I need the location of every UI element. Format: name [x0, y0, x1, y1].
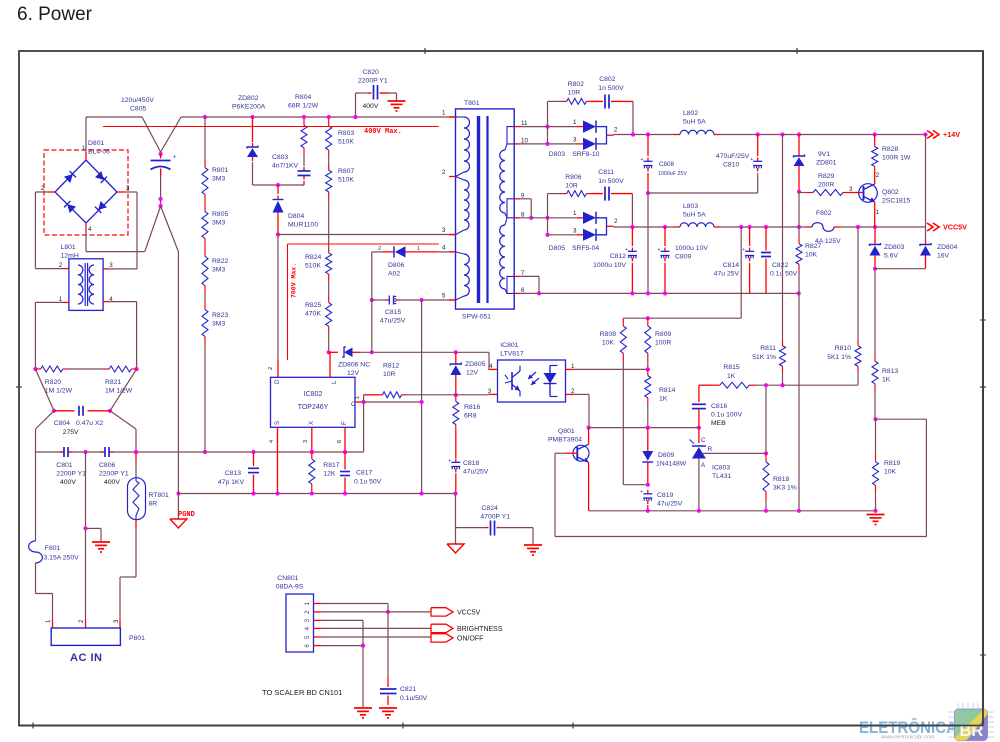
svg-text:10R: 10R	[568, 90, 581, 97]
svg-text:5.6V: 5.6V	[884, 253, 898, 260]
svg-text:R829: R829	[818, 173, 834, 180]
svg-text:R813: R813	[882, 368, 898, 375]
svg-text:700V Max.: 700V Max.	[291, 263, 298, 298]
svg-text:C822: C822	[772, 262, 788, 269]
svg-text:R811: R811	[760, 345, 776, 352]
svg-text:1: 1	[304, 602, 311, 606]
svg-text:R821: R821	[105, 379, 121, 386]
svg-text:3M3: 3M3	[212, 321, 225, 328]
svg-text:D805: D805	[549, 245, 565, 252]
svg-text:P6KE200A: P6KE200A	[232, 104, 266, 111]
svg-text:400V: 400V	[363, 103, 379, 110]
svg-text:R810: R810	[835, 345, 851, 352]
svg-text:R802: R802	[568, 81, 584, 88]
svg-text:5: 5	[304, 635, 311, 639]
svg-text:470uF/25V: 470uF/25V	[716, 153, 750, 160]
svg-text:+: +	[750, 157, 753, 163]
svg-text:C810: C810	[723, 162, 739, 169]
svg-text:R: R	[708, 446, 713, 453]
svg-text:+: +	[173, 155, 177, 161]
svg-text:510K: 510K	[305, 263, 321, 270]
svg-text:3: 3	[303, 440, 309, 443]
svg-text:1: 1	[876, 209, 880, 216]
svg-text:1n 500V: 1n 500V	[598, 178, 624, 185]
svg-text:A: A	[701, 462, 706, 469]
svg-text:6R8: 6R8	[464, 413, 477, 420]
svg-text:+: +	[641, 157, 644, 163]
svg-text:2: 2	[442, 169, 446, 176]
svg-text:3M3: 3M3	[212, 176, 225, 183]
svg-text:MUR1100: MUR1100	[288, 222, 318, 229]
svg-text:D: D	[274, 379, 281, 384]
svg-text:CN801: CN801	[277, 575, 298, 582]
svg-text:R828: R828	[882, 146, 898, 153]
svg-text:+: +	[448, 458, 451, 464]
svg-text:SPW-051: SPW-051	[462, 314, 491, 321]
svg-text:1000u 10V: 1000u 10V	[675, 245, 708, 252]
svg-text:R815: R815	[723, 364, 739, 371]
svg-text:3M3: 3M3	[212, 267, 225, 274]
svg-text:400V: 400V	[104, 479, 120, 486]
svg-text:400V Max.: 400V Max.	[364, 128, 402, 136]
svg-text:1: 1	[417, 246, 420, 252]
svg-text:IC802: IC802	[304, 391, 323, 398]
svg-text:D806: D806	[388, 262, 404, 269]
svg-text:120u/450V: 120u/450V	[121, 97, 154, 104]
svg-text:1M 1/2W: 1M 1/2W	[45, 388, 73, 395]
svg-text:C808: C808	[659, 161, 675, 168]
svg-text:R822: R822	[212, 258, 228, 265]
svg-text:PMBT3904: PMBT3904	[548, 437, 582, 444]
svg-text:VCC5V: VCC5V	[943, 223, 967, 232]
svg-text:12V: 12V	[347, 370, 360, 377]
svg-text:200R: 200R	[818, 182, 834, 189]
svg-text:12mH: 12mH	[61, 253, 79, 260]
svg-text:TO SCALER BD CN101: TO SCALER BD CN101	[262, 688, 342, 697]
svg-text:Q802: Q802	[882, 189, 899, 196]
svg-text:R808: R808	[600, 331, 616, 338]
svg-text:LTV817: LTV817	[500, 351, 524, 358]
svg-text:2SC1815: 2SC1815	[882, 198, 911, 205]
svg-text:L802: L802	[683, 110, 698, 117]
svg-text:1K: 1K	[727, 373, 736, 380]
svg-text:R817: R817	[323, 462, 339, 469]
svg-text:ZD805: ZD805	[465, 361, 486, 368]
svg-text:R818: R818	[773, 476, 789, 483]
svg-text:R803: R803	[338, 130, 354, 137]
svg-text:51K 1%: 51K 1%	[752, 354, 776, 361]
svg-text:2200P Y1: 2200P Y1	[358, 78, 388, 85]
svg-text:C821: C821	[400, 686, 416, 693]
svg-text:0.1u/50V: 0.1u/50V	[400, 695, 428, 702]
svg-text:1N4148W: 1N4148W	[656, 461, 687, 468]
svg-text:R816: R816	[464, 404, 480, 411]
svg-text:10R: 10R	[565, 183, 578, 190]
svg-text:C806: C806	[99, 462, 115, 469]
svg-text:C802: C802	[599, 76, 615, 83]
svg-text:3M3: 3M3	[212, 220, 225, 227]
svg-text:3: 3	[126, 185, 130, 192]
svg-text:R823: R823	[212, 312, 228, 319]
svg-text:C824: C824	[482, 505, 498, 512]
svg-text:3: 3	[573, 228, 577, 235]
svg-text:1K: 1K	[882, 377, 891, 384]
svg-text:3: 3	[849, 186, 853, 193]
svg-text:4: 4	[489, 363, 493, 370]
svg-text:68R 1/2W: 68R 1/2W	[288, 103, 319, 110]
svg-text:R806: R806	[565, 174, 581, 181]
svg-text:3.15A 250V: 3.15A 250V	[44, 555, 80, 562]
svg-text:9V1: 9V1	[818, 151, 830, 158]
svg-text:1000u 10V: 1000u 10V	[593, 262, 626, 269]
svg-text:ZD801: ZD801	[816, 160, 837, 167]
svg-text:R804: R804	[295, 94, 311, 101]
svg-text:ON/OFF: ON/OFF	[457, 636, 483, 643]
svg-text:TOP246Y: TOP246Y	[298, 404, 329, 411]
svg-text:10K: 10K	[805, 252, 818, 259]
svg-text:C814: C814	[723, 262, 739, 269]
svg-text:2: 2	[614, 127, 618, 134]
svg-text:3K3 1%: 3K3 1%	[773, 485, 797, 492]
svg-text:+: +	[640, 490, 643, 496]
svg-text:2: 2	[378, 246, 381, 252]
svg-text:R820: R820	[45, 379, 61, 386]
svg-text:X: X	[308, 421, 315, 425]
svg-text:D809: D809	[658, 452, 674, 459]
svg-text:MEB: MEB	[711, 420, 726, 427]
svg-text:ZD803: ZD803	[884, 244, 905, 251]
svg-text:2: 2	[41, 185, 45, 192]
svg-text:4n7/1KV: 4n7/1KV	[272, 163, 299, 170]
svg-text:SRF8-10: SRF8-10	[572, 151, 599, 158]
svg-text:C812: C812	[610, 253, 626, 260]
svg-text:C820: C820	[363, 69, 379, 76]
svg-text:R812: R812	[383, 363, 399, 370]
svg-text:2200P Y1: 2200P Y1	[56, 471, 86, 478]
svg-text:R819: R819	[884, 460, 900, 467]
svg-text:+: +	[742, 247, 745, 253]
svg-text:8R: 8R	[149, 501, 158, 508]
svg-text:10K: 10K	[884, 469, 897, 476]
svg-text:C801: C801	[56, 462, 72, 469]
svg-text:510K: 510K	[338, 177, 354, 184]
svg-text:5uH 5A: 5uH 5A	[683, 212, 706, 219]
svg-text:6. Power: 6. Power	[17, 4, 93, 25]
svg-text:1: 1	[442, 110, 446, 117]
svg-text:R801: R801	[212, 167, 228, 174]
svg-text:12K: 12K	[323, 471, 336, 478]
svg-text:400V: 400V	[60, 479, 76, 486]
svg-text:RT801: RT801	[149, 492, 169, 499]
svg-text:100R: 100R	[655, 340, 671, 347]
svg-text:S: S	[274, 421, 281, 425]
svg-text:C817: C817	[356, 470, 372, 477]
svg-text:R827: R827	[805, 243, 821, 250]
svg-text:47p 1KV: 47p 1KV	[218, 479, 245, 486]
svg-text:3: 3	[109, 262, 113, 269]
svg-text:470K: 470K	[305, 311, 321, 318]
svg-text:510K: 510K	[338, 139, 354, 146]
svg-text:5uH 5A: 5uH 5A	[683, 119, 706, 126]
svg-text:L803: L803	[683, 203, 698, 210]
svg-text:C804: C804	[54, 420, 70, 427]
svg-text:4: 4	[442, 244, 446, 251]
svg-text:2200P Y1: 2200P Y1	[99, 471, 129, 478]
svg-text:C816: C816	[711, 403, 727, 410]
svg-text:ZD802: ZD802	[238, 95, 259, 102]
svg-text:1n 500V: 1n 500V	[598, 85, 624, 92]
svg-text:1: 1	[573, 210, 577, 217]
svg-text:C803: C803	[272, 154, 288, 161]
svg-text:C818: C818	[463, 460, 479, 467]
svg-text:3: 3	[304, 618, 311, 622]
svg-text:275V: 275V	[63, 429, 79, 436]
svg-text:F801: F801	[45, 545, 61, 552]
svg-text:1: 1	[355, 396, 361, 399]
svg-text:R807: R807	[338, 168, 354, 175]
svg-text:D803: D803	[549, 151, 565, 158]
svg-text:IC801: IC801	[500, 342, 518, 349]
svg-text:2: 2	[614, 218, 618, 225]
svg-text:47u/25V: 47u/25V	[657, 501, 683, 508]
svg-text:10R: 10R	[383, 371, 396, 378]
svg-text:TL431: TL431	[712, 473, 731, 480]
svg-text:12V: 12V	[466, 370, 479, 377]
svg-text:2: 2	[876, 172, 880, 179]
svg-text:R805: R805	[212, 211, 228, 218]
svg-text:5K1 1%: 5K1 1%	[827, 354, 851, 361]
svg-text:6: 6	[337, 440, 343, 443]
svg-text:www.eletronicabr.com: www.eletronicabr.com	[880, 735, 935, 741]
svg-text:R825: R825	[305, 302, 321, 309]
svg-text:L: L	[331, 380, 338, 384]
svg-text:1K: 1K	[659, 396, 668, 403]
svg-text:1000uF 25V: 1000uF 25V	[658, 171, 687, 177]
svg-text:16V: 16V	[937, 253, 950, 260]
svg-text:D801: D801	[88, 140, 104, 147]
svg-text:L801: L801	[61, 244, 76, 251]
svg-text:D804: D804	[288, 213, 304, 220]
svg-text:3: 3	[573, 137, 577, 144]
svg-text:10K: 10K	[602, 340, 615, 347]
svg-text:C819: C819	[657, 492, 673, 499]
svg-text:R824: R824	[305, 254, 321, 261]
svg-text:0.1u 50V: 0.1u 50V	[354, 479, 382, 486]
svg-text:2: 2	[304, 610, 311, 614]
svg-text:0.1u 50V: 0.1u 50V	[770, 271, 798, 278]
svg-text:1: 1	[573, 119, 577, 126]
svg-text:T801: T801	[464, 100, 480, 107]
svg-text:C805: C805	[130, 106, 146, 113]
svg-text:0.47u X2: 0.47u X2	[76, 420, 103, 427]
svg-text:IC803: IC803	[712, 465, 730, 472]
svg-text:+: +	[658, 247, 661, 253]
svg-text:4: 4	[88, 226, 92, 233]
svg-text:R814: R814	[659, 387, 675, 394]
svg-text:C809: C809	[675, 254, 691, 261]
svg-text:4: 4	[269, 440, 275, 443]
svg-text:BRIGHTNESS: BRIGHTNESS	[457, 626, 503, 633]
svg-text:08DA-9S: 08DA-9S	[276, 584, 304, 591]
svg-text:1M 1/2W: 1M 1/2W	[105, 388, 133, 395]
svg-text:C815: C815	[385, 309, 401, 316]
svg-text:F802: F802	[816, 210, 832, 217]
svg-text:+14V: +14V	[943, 130, 960, 139]
svg-text:Q801: Q801	[558, 428, 575, 435]
svg-text:A02: A02	[388, 271, 400, 278]
svg-text:C813: C813	[225, 470, 241, 477]
svg-text:47u/25V: 47u/25V	[463, 469, 489, 476]
svg-text:4700P Y1: 4700P Y1	[480, 514, 510, 521]
svg-text:47u 25V: 47u 25V	[714, 271, 740, 278]
svg-text:2: 2	[59, 262, 63, 269]
svg-text:2: 2	[268, 367, 274, 370]
svg-text:3: 3	[442, 227, 446, 234]
svg-text:0.1u 100V: 0.1u 100V	[711, 412, 742, 419]
svg-text:AC IN: AC IN	[70, 652, 102, 664]
svg-text:100R 1W: 100R 1W	[882, 155, 911, 162]
svg-text:4: 4	[304, 626, 311, 630]
svg-text:ZD806 NC: ZD806 NC	[338, 362, 370, 369]
svg-text:6: 6	[304, 644, 311, 648]
svg-text:PGND: PGND	[178, 511, 195, 519]
svg-text:F: F	[341, 421, 348, 425]
svg-text:P801: P801	[129, 635, 145, 642]
svg-text:R809: R809	[655, 331, 671, 338]
svg-text:47u/25V: 47u/25V	[380, 318, 406, 325]
svg-text:VCC5V: VCC5V	[457, 610, 481, 617]
svg-text:3: 3	[488, 388, 492, 395]
svg-text:C: C	[701, 437, 706, 444]
svg-text:C811: C811	[598, 169, 614, 176]
svg-text:5: 5	[442, 293, 446, 300]
svg-text:ZD804: ZD804	[937, 244, 958, 251]
svg-text:SRF5-04: SRF5-04	[572, 245, 599, 252]
